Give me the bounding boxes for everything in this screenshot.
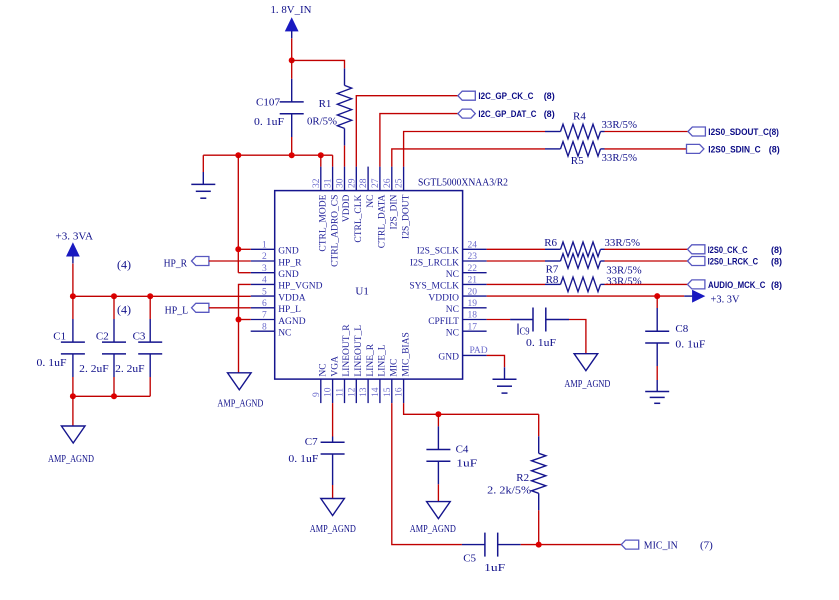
pin 19 NC stub: [463, 307, 487, 309]
port I2S0_LRCK_C: [688, 257, 705, 266]
wire 1.8V_IN to junction: [291, 38, 293, 60]
port I2S0_SDOUT_C: [688, 127, 705, 136]
svg-text:(8): (8): [771, 257, 782, 267]
svg-text:2: 2: [262, 252, 267, 262]
svg-text:16: 16: [395, 387, 405, 397]
svg-text:0R/5%: 0R/5%: [307, 116, 337, 128]
svg-text:R1: R1: [319, 98, 332, 110]
pin 15 MIC stub: [391, 379, 393, 403]
wire R7 to I2S0_LRCK_C: [605, 260, 688, 262]
wire pin 23 I2S_LRCLK to R7: [487, 260, 545, 262]
svg-text:CTRL_CLK: CTRL_CLK: [354, 194, 364, 242]
resistor R8 33R/5%: [561, 277, 601, 292]
port AUDIO_MCK_C: [688, 280, 705, 289]
svg-text:R4: R4: [573, 111, 586, 123]
svg-text:1uF: 1uF: [484, 562, 505, 574]
svg-text:C2: C2: [96, 331, 109, 343]
svg-text:MIC_BIAS: MIC_BIAS: [401, 332, 411, 376]
svg-text:3: 3: [262, 264, 267, 274]
wire pin 26 I2S_DIN to R5: [392, 149, 545, 167]
pin 17 NC stub: [463, 330, 487, 332]
pin 26 I2S_DIN stub: [391, 167, 393, 191]
node VDDIO-C8: [654, 293, 660, 299]
ground AMP_AGND below C7: [321, 499, 345, 516]
svg-text:C8: C8: [675, 323, 688, 335]
svg-text:AMP_AGND: AMP_AGND: [410, 524, 456, 535]
svg-text:C4: C4: [456, 444, 469, 456]
port HP_L: [192, 303, 209, 312]
ground AMP_AGND left: [61, 426, 85, 443]
svg-text:21: 21: [468, 276, 478, 286]
wire pin 27 CTRL_DATA to I2C_GP_DAT_C: [380, 114, 458, 167]
pin 22 NC stub: [463, 272, 487, 274]
svg-text:I2S_DOUT: I2S_DOUT: [401, 194, 411, 239]
pin 27 CTRL_DATA stub: [379, 167, 381, 191]
resistor R4 33R/5%: [561, 124, 601, 139]
pin 7 AGND stub: [251, 319, 275, 321]
wire R5 to I2S0_SDIN_C: [605, 148, 687, 150]
capacitor C3 2.2uF: [149, 296, 151, 319]
svg-text:I2C_GP_DAT_C: I2C_GP_DAT_C: [478, 109, 536, 119]
pin 2 HP_R stub: [251, 260, 275, 262]
wire rail branch down to pin 1 and pin 3: [237, 155, 239, 273]
svg-text:LINE_L: LINE_L: [378, 344, 388, 376]
svg-text:33R/5%: 33R/5%: [606, 275, 642, 287]
port I2S0_CK_C: [688, 245, 705, 254]
svg-text:1uF: 1uF: [456, 458, 477, 470]
svg-text:+3. 3V: +3. 3V: [711, 294, 740, 306]
node pin7 junction: [236, 317, 242, 323]
wire VDDA rail: [73, 295, 251, 297]
resistor R2 2.2k/5%: [538, 414, 540, 436]
svg-text:+3. 3VA: +3. 3VA: [56, 231, 94, 243]
ground GND symbol top-left: [202, 155, 204, 172]
svg-text:18: 18: [468, 311, 478, 321]
wire branch to pin 7: [239, 319, 251, 321]
resistor R1 0R/5%: [337, 85, 351, 128]
node R2-C5-MIC_IN: [536, 542, 542, 548]
pin 28 NC stub: [367, 167, 369, 191]
capacitor C1 0.1uF: [72, 296, 74, 319]
svg-text:23: 23: [468, 252, 478, 262]
svg-text:17: 17: [468, 322, 478, 332]
wire C4 to AMP_AGND: [437, 484, 439, 501]
node rail-C107: [289, 152, 295, 158]
wire PAD to ground: [487, 355, 505, 367]
wire R4 to I2S0_SDOUT_C: [605, 131, 689, 133]
wire to pin 1: [238, 248, 250, 250]
svg-text:19: 19: [468, 299, 478, 309]
resistor R7 33R/5%: [561, 254, 601, 269]
svg-text:SYS_MCLK: SYS_MCLK: [409, 282, 459, 292]
svg-text:7: 7: [262, 311, 267, 321]
svg-text:I2S0_SDOUT_C(8): I2S0_SDOUT_C(8): [708, 127, 779, 137]
svg-text:C1: C1: [53, 331, 66, 343]
wire pin 29 CTRL_CLK to I2C_GP_CK_C: [356, 96, 458, 167]
svg-text:32: 32: [312, 178, 322, 188]
wire C7 to AMP_AGND: [332, 485, 334, 499]
svg-text:31: 31: [324, 178, 334, 188]
svg-text:2. 2k/5%: 2. 2k/5%: [487, 485, 531, 497]
node rail-C3: [147, 293, 153, 299]
svg-text:R6: R6: [544, 237, 557, 249]
svg-text:PAD: PAD: [470, 346, 488, 356]
capacitor C2 2.2uF: [113, 296, 115, 319]
svg-text:NC: NC: [446, 329, 459, 339]
pin 5 VDDA stub: [251, 295, 275, 297]
svg-text:VDDIO: VDDIO: [428, 293, 459, 303]
svg-text:0. 1uF: 0. 1uF: [37, 357, 67, 369]
svg-text:24: 24: [468, 241, 478, 251]
capacitor C5 1uF: [462, 544, 485, 546]
svg-text:(8): (8): [771, 280, 782, 290]
svg-text:(8): (8): [544, 91, 555, 101]
pin 32 CTRL_MODE stub: [320, 167, 322, 191]
pin 29 CTRL_CLK stub: [355, 167, 357, 191]
wire pin 20 VDDIO to +3.3V: [487, 295, 685, 297]
svg-text:33R/5%: 33R/5%: [605, 237, 641, 249]
port I2C_GP_DAT_C: [458, 109, 475, 118]
svg-text:GND: GND: [278, 247, 299, 257]
wire R1 bottom to pin 30: [344, 146, 346, 167]
wire pin 10 VGA to C7: [332, 403, 334, 436]
pin 11 LINEOUT_R stub: [344, 379, 346, 403]
pin PAD GND stub: [463, 354, 487, 356]
svg-text:(4): (4): [117, 302, 131, 316]
capacitor C4 1uF: [437, 414, 439, 426]
svg-text:AMP_AGND: AMP_AGND: [217, 399, 263, 410]
svg-text:CTRL_ADRO_CS: CTRL_ADRO_CS: [330, 195, 340, 267]
pin 30 VDDD stub: [344, 167, 346, 191]
pin 25 I2S_DOUT stub: [403, 167, 405, 191]
svg-text:30: 30: [336, 178, 346, 188]
svg-text:NC: NC: [446, 270, 459, 280]
capacitor C9 0.1uF: [510, 319, 533, 321]
svg-text:1: 1: [262, 241, 267, 251]
svg-text:20: 20: [468, 287, 478, 297]
wire C9 to AMP_AGND: [569, 320, 586, 354]
capacitor C7 0.1uF: [332, 437, 334, 443]
wire rail to pin 32: [320, 155, 322, 166]
svg-text:GND: GND: [438, 353, 459, 363]
svg-text:LINE_R: LINE_R: [366, 343, 376, 376]
pin 10 VGA stub: [332, 379, 334, 403]
pin 3 GND stub: [251, 272, 275, 274]
pin 23 I2S_LRCLK stub: [463, 260, 487, 262]
pin 20 VDDIO stub: [463, 295, 487, 297]
svg-text:15: 15: [383, 387, 393, 397]
wire HP_R to pin 2: [209, 260, 251, 262]
wire GND rail: [203, 154, 332, 156]
svg-text:1. 8V_IN: 1. 8V_IN: [271, 4, 312, 16]
port HP_R: [192, 257, 209, 266]
svg-text:U1: U1: [355, 286, 368, 298]
svg-text:0. 1uF: 0. 1uF: [254, 116, 284, 128]
wire pin 18 CPFILT to C9: [487, 319, 511, 321]
svg-text:(8): (8): [771, 245, 782, 255]
node C4 top: [435, 411, 441, 417]
svg-text:2. 2uF: 2. 2uF: [79, 363, 109, 375]
wire pin 24 I2S_SCLK to R6: [487, 248, 545, 250]
svg-text:14: 14: [371, 387, 381, 397]
svg-text:AMP_AGND: AMP_AGND: [310, 524, 356, 535]
svg-text:HP_L: HP_L: [165, 304, 189, 316]
svg-text:C5: C5: [463, 552, 476, 564]
wire junction to R1 top: [292, 60, 345, 68]
svg-text:5: 5: [262, 287, 267, 297]
svg-text:MIC_IN: MIC_IN: [644, 540, 678, 551]
wire R2 bottom to MIC node: [538, 510, 540, 544]
svg-text:33R/5%: 33R/5%: [602, 152, 638, 164]
capacitor C8 0.1uF: [656, 296, 658, 308]
node bottom rail-C1: [70, 393, 76, 399]
wire pin 4 HP_VGND to AGND branch: [239, 284, 251, 372]
node pin1 junction: [235, 246, 241, 252]
svg-text:C7: C7: [305, 436, 318, 448]
capacitor C107: [291, 79, 293, 102]
wire C5 to MIC_IN: [521, 544, 622, 546]
wire junction down to C107: [291, 60, 293, 78]
svg-text:8: 8: [262, 322, 267, 332]
svg-text:0. 1uF: 0. 1uF: [526, 337, 556, 349]
svg-text:C9: C9: [520, 325, 530, 337]
wire +3.3VA down to rail: [72, 264, 74, 297]
svg-text:I2S0_LRCK_C: I2S0_LRCK_C: [708, 257, 759, 267]
svg-text:MIC: MIC: [390, 359, 400, 377]
resistor R5 33R/5%: [561, 142, 601, 157]
svg-text:CTRL_DATA: CTRL_DATA: [378, 194, 388, 248]
ground AMP_AGND below pin7: [228, 373, 252, 390]
port I2S0_SDIN_C: [687, 144, 704, 153]
node rail-pin32: [318, 152, 324, 158]
wire R8 to AUDIO_MCK_C: [605, 283, 688, 285]
svg-text:R2: R2: [516, 472, 529, 484]
pin 13 LINE_R stub: [367, 379, 369, 403]
svg-text:I2S0_SDIN_C: I2S0_SDIN_C: [708, 145, 761, 155]
wire rail to pin 31: [332, 155, 334, 166]
svg-text:I2C_GP_CK_C: I2C_GP_CK_C: [478, 91, 533, 101]
wire pin 21 SYS_MCLK to R8: [487, 283, 545, 285]
svg-text:NC: NC: [278, 329, 291, 339]
pin 24 I2S_SCLK stub: [463, 248, 487, 250]
svg-text:(8): (8): [544, 109, 555, 119]
svg-text:I2S_SCLK: I2S_SCLK: [417, 247, 459, 257]
pin 18 CPFILT stub: [463, 319, 487, 321]
svg-text:6: 6: [262, 299, 267, 309]
svg-text:R8: R8: [546, 274, 559, 286]
svg-text:27: 27: [371, 178, 381, 188]
wire HP_L to pin 6: [209, 307, 251, 309]
svg-text:AMP_AGND: AMP_AGND: [564, 379, 610, 390]
wire C8 to ground: [656, 366, 658, 380]
wire pin 15 MIC to C5: [392, 403, 462, 544]
node rail-C2: [111, 293, 117, 299]
pin 14 LINE_L stub: [379, 379, 381, 403]
svg-text:29: 29: [347, 178, 357, 188]
ground AMP_AGND below C4: [427, 502, 451, 519]
ground below C8: [656, 380, 658, 392]
port I2C_GP_CK_C: [458, 91, 475, 100]
svg-text:HP_R: HP_R: [278, 258, 302, 268]
svg-text:2. 2uF: 2. 2uF: [115, 363, 145, 375]
svg-text:VDDA: VDDA: [278, 293, 306, 303]
wire C107 bottom to GND rail: [291, 137, 293, 155]
pin 9 NC stub: [320, 379, 322, 403]
svg-text:SGTL5000XNAA3/R2: SGTL5000XNAA3/R2: [418, 178, 508, 189]
svg-text:26: 26: [383, 178, 393, 188]
svg-text:CTRL_MODE: CTRL_MODE: [319, 194, 329, 251]
svg-text:AUDIO_MCK_C: AUDIO_MCK_C: [708, 280, 766, 290]
wire down to AMP_AGND: [72, 396, 74, 426]
pin 4 HP_VGND stub: [251, 283, 275, 285]
svg-text:NC: NC: [366, 195, 376, 208]
svg-text:11: 11: [336, 388, 346, 397]
power +3.3V arrow: [684, 295, 692, 297]
svg-text:AGND: AGND: [278, 317, 306, 327]
svg-text:9: 9: [312, 392, 322, 397]
svg-text:LINEOUT_L: LINEOUT_L: [354, 325, 364, 377]
port MIC_IN: [621, 540, 638, 549]
svg-text:VDDD: VDDD: [342, 194, 352, 222]
svg-text:28: 28: [359, 178, 369, 188]
wire R6 to I2S0_CK_C: [605, 248, 688, 250]
node bottom rail-C2: [111, 393, 117, 399]
node junction 1.8V: [289, 57, 295, 63]
svg-text:CPFILT: CPFILT: [428, 317, 459, 327]
svg-text:GND: GND: [278, 270, 299, 280]
svg-text:(4): (4): [117, 257, 131, 271]
svg-text:(7): (7): [700, 539, 713, 551]
resistor R6 33R/5%: [561, 242, 601, 257]
svg-text:C107: C107: [256, 97, 280, 109]
svg-text:HP_VGND: HP_VGND: [278, 282, 322, 292]
wire bottom AGND rail: [73, 395, 150, 397]
pin 1 GND stub: [251, 248, 275, 250]
svg-text:33R/5%: 33R/5%: [602, 119, 638, 131]
svg-text:LINEOUT_R: LINEOUT_R: [342, 324, 352, 377]
pin 8 NC stub: [251, 330, 275, 332]
svg-text:C3: C3: [133, 331, 146, 343]
wire pin 25 I2S_DOUT to R4: [404, 132, 545, 167]
pin 12 LINEOUT_L stub: [355, 379, 357, 403]
svg-text:13: 13: [359, 387, 369, 397]
pin 31 CTRL_ADRO_CS stub: [332, 167, 334, 191]
svg-text:NC: NC: [319, 363, 329, 376]
svg-text:25: 25: [395, 178, 405, 188]
svg-text:HP_R: HP_R: [164, 258, 188, 270]
ground AMP_AGND at C9: [574, 354, 598, 371]
svg-text:0. 1uF: 0. 1uF: [288, 453, 318, 465]
svg-text:VGA: VGA: [330, 356, 340, 377]
svg-text:I2S0_CK_C: I2S0_CK_C: [708, 245, 748, 255]
svg-text:NC: NC: [446, 305, 459, 315]
svg-text:4: 4: [262, 276, 267, 286]
svg-text:AMP_AGND: AMP_AGND: [48, 454, 94, 465]
pin 21 SYS_MCLK stub: [463, 283, 487, 285]
wire pin 16 MIC_BIAS to C4/R2: [404, 403, 539, 414]
svg-text:10: 10: [324, 387, 334, 397]
node rail-C1: [70, 293, 76, 299]
svg-text:I2S_LRCLK: I2S_LRCLK: [410, 258, 459, 268]
ground below PAD: [504, 367, 506, 379]
pin 6 HP_L stub: [251, 307, 275, 309]
node rail-left branch: [235, 152, 241, 158]
pin 16 MIC_BIAS stub: [403, 379, 405, 403]
IC U1 SGTL5000XNAA3/R2 body: [275, 191, 463, 380]
svg-text:22: 22: [468, 264, 478, 274]
svg-text:I2S_DIN: I2S_DIN: [390, 194, 400, 229]
svg-text:R5: R5: [571, 155, 584, 167]
svg-text:HP_L: HP_L: [278, 305, 301, 315]
svg-text:0. 1uF: 0. 1uF: [675, 338, 705, 350]
svg-text:12: 12: [347, 387, 357, 397]
svg-text:(8): (8): [769, 145, 780, 155]
